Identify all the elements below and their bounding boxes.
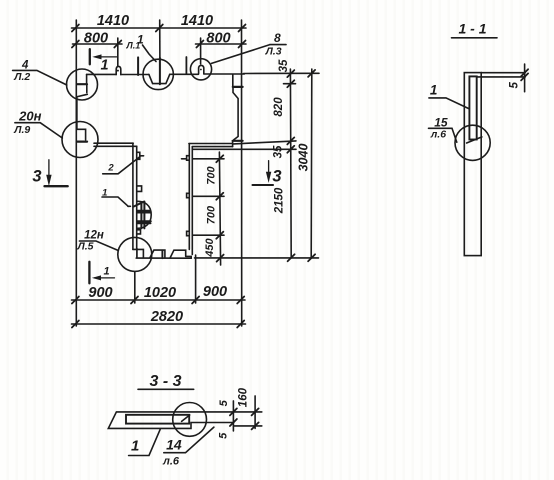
svg-text:1: 1 [103,265,109,277]
section 1-1 outer panel outline [464,73,481,256]
svg-text:800: 800 [206,31,230,47]
left leg tab 1 (item 2) [137,152,140,159]
detail circle L6 (3-3) [173,403,207,437]
wire: middle extension line (to notch L1) [159,20,161,60]
700/700/450 chain dimension line [219,152,220,265]
right chain dimension line 35/820/35/2150 [289,69,292,258]
svg-text:1: 1 [430,82,438,97]
left leg walls [133,143,137,249]
dimension 5/5 (3-3) [232,401,234,431]
svg-text:Л.1: Л.1 [126,41,141,51]
dimension 2820 bottom [72,323,246,325]
section marker 3 left [48,160,50,177]
right leg tab 3 [187,231,190,235]
leader 8/L3 [212,45,270,64]
svg-text:820: 820 [273,97,285,117]
leader 1 (3-3) [129,429,161,455]
section 3-3 outer outline [108,412,234,429]
svg-text:1: 1 [102,188,107,199]
svg-text:8: 8 [274,31,281,45]
panel top edge [87,73,245,76]
3040 dimension line [310,69,313,258]
dimension 5 (1-1) [481,72,525,74]
bottom band keyed joint [133,249,191,258]
detail circle L6 (1-1) [455,125,490,160]
wire: bottom extension from left leg [134,272,136,303]
title underline 3-3 [138,388,194,390]
notch L9 [77,129,86,139]
dimension 800 right [196,43,247,45]
section 1-1 embedded element [469,76,476,139]
leader 14/L6 [164,427,214,453]
svg-text:Л.3: Л.3 [265,46,282,58]
svg-text:1020: 1020 [144,285,176,301]
svg-text:3: 3 [32,168,41,186]
right leg tab 2 [187,193,190,197]
dash at bulge (leader target) [128,205,130,207]
wire: right extensions [244,72,320,74]
detail circle L1 [143,59,173,89]
svg-text:35: 35 [278,59,290,72]
dimension 800 left [73,43,123,45]
title underline 1-1 [452,37,498,39]
wire: left extension line [75,20,77,326]
wire: right extension line [241,20,243,326]
lifting loop 1 [116,66,121,74]
rebar bar 2 above edge [185,57,187,74]
wire: extension of 800-right to loop [200,38,202,64]
svg-text:3 - 3: 3 - 3 [149,373,181,390]
svg-text:5: 5 [509,82,521,89]
leader 4/L2 [13,70,67,85]
left edge with notch L2 [86,74,88,83]
svg-text:700: 700 [206,165,218,184]
leader 15/L6 [429,128,457,142]
detail circle L2 [67,69,98,100]
section marker 3 right [268,161,270,177]
rebar bar 1 above edge [137,57,139,75]
TEXTS [84,13,231,325]
svg-text:160: 160 [238,387,250,407]
svg-text:5: 5 [218,432,230,439]
right leg tab 1 [187,156,190,161]
svg-text:900: 900 [88,285,112,301]
section 3-3 embedded element [126,415,189,424]
svg-text:Л.2: Л.2 [13,71,30,83]
band underside double line left part [94,143,137,146]
svg-text:15: 15 [434,115,448,129]
leader 20n/L9 [15,123,62,138]
leader 1/L1 [143,45,157,62]
lifting loop 2 [199,65,204,73]
svg-text:2820: 2820 [150,309,183,325]
detail circle L5 [118,237,152,271]
leader 2 [103,157,140,174]
svg-text:4: 4 [21,60,29,72]
wire: bottom extension from right end of lower band [195,255,197,303]
svg-text:1: 1 [100,58,108,74]
svg-text:2150: 2150 [274,187,286,214]
right leg walls [189,144,192,255]
section marker 1 top-left [89,49,91,64]
dimension 900/1020/900 bottom [72,299,246,301]
svg-text:20н: 20н [18,108,41,123]
notch L1 in top edge [149,74,170,83]
left leg tab 3 [137,230,141,234]
svg-text:3: 3 [272,168,281,186]
leader 1 (1-1) [429,98,469,109]
svg-text:Л.9: Л.9 [13,124,30,136]
wire: extension of 800-left to loop [117,38,119,66]
svg-text:1 - 1: 1 - 1 [458,21,486,37]
detail circle L3 [190,59,211,80]
dimension 160 (3-3) [254,396,256,429]
embedded item 1 bulge [137,201,151,228]
svg-text:12н: 12н [84,229,104,241]
svg-text:450: 450 [204,237,216,257]
dimension 1410+1410 top [72,27,247,29]
right edge with notches [232,74,234,86]
detail circle L9 [62,122,98,158]
leader 12n/L5 [79,241,118,251]
svg-text:1410: 1410 [97,13,129,29]
svg-text:Л.5: Л.5 [77,241,94,253]
leader 1 (to bulge) [102,197,128,206]
wire: tab axis dashes right leg [182,158,187,160]
svg-text:3040: 3040 [297,144,311,172]
svg-text:35: 35 [273,145,285,158]
svg-text:5: 5 [218,399,230,406]
svg-text:л.6: л.6 [162,456,180,468]
svg-text:1410: 1410 [181,13,213,29]
left leg tab 2 [137,186,142,192]
svg-text:14: 14 [166,437,182,453]
svg-text:л.6: л.6 [430,129,446,141]
section marker 1 bottom-left [88,262,90,284]
svg-text:1: 1 [131,438,139,455]
svg-text:800: 800 [84,31,108,47]
svg-text:700: 700 [206,205,218,224]
svg-text:900: 900 [203,284,227,300]
band underside double line right part [189,144,233,147]
svg-text:2: 2 [107,162,114,173]
